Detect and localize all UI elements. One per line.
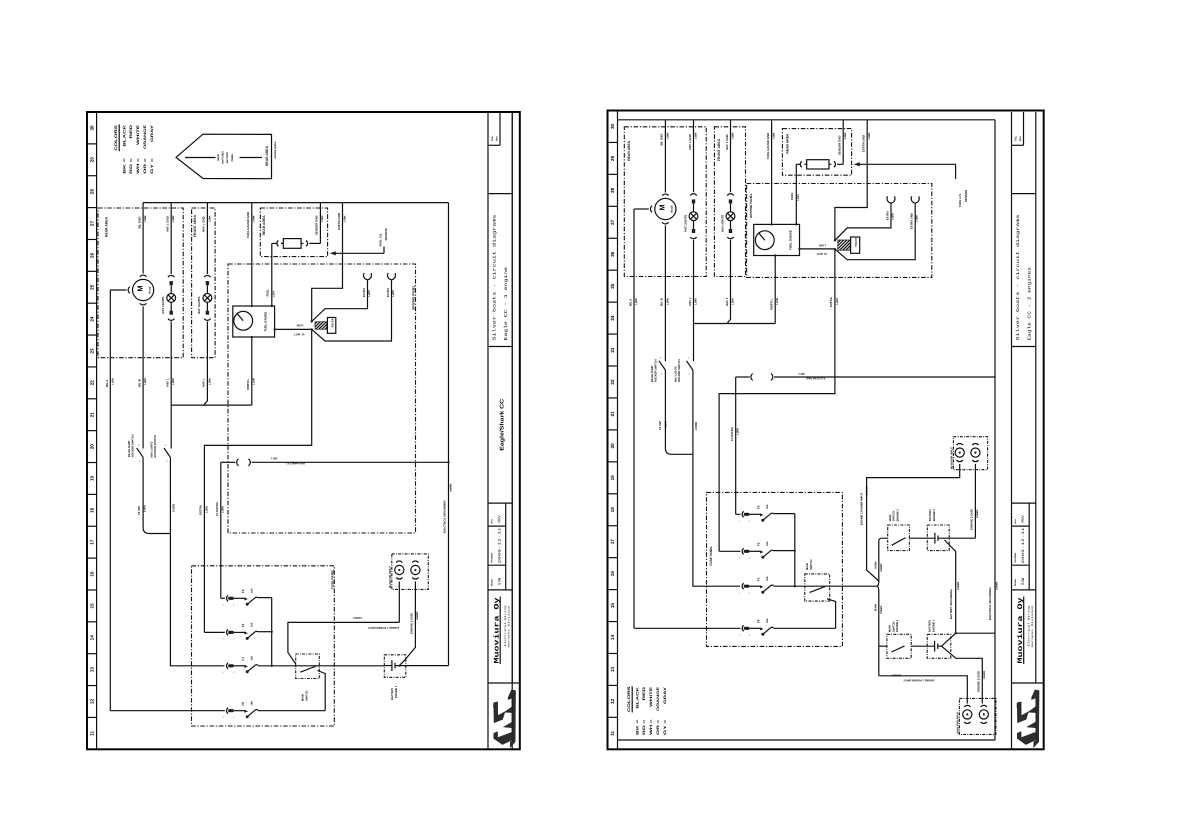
connector engine 1 pin B: [411, 561, 420, 579]
wire FUEL GAUGE GND: [246, 203, 256, 306]
lamp feed junction wire: [171, 404, 252, 406]
wire ANT L p2: [688, 240, 698, 361]
svg-text:OR =: OR =: [656, 720, 660, 736]
svg-text:BLACK: BLACK: [122, 124, 126, 146]
svg-text:ANT L: ANT L: [166, 378, 170, 387]
svg-text:Drawn.: Drawn.: [491, 578, 494, 586]
svg-text:ENGINE 2 POWER INPUT: ENGINE 2 POWER INPUT: [861, 492, 864, 525]
svg-text:REAR AREA: REAR AREA: [105, 216, 109, 237]
svg-text:10MM2: 10MM2: [957, 581, 960, 590]
svg-text:NAV LIGHTS: NAV LIGHTS: [197, 297, 201, 314]
svg-text:SENSOR GND: SENSOR GND: [838, 136, 842, 155]
svg-text:1.5GY: 1.5GY: [797, 194, 800, 201]
svg-text:BATTERY: BATTERY: [391, 688, 394, 700]
svg-text:1.5RD: 1.5RD: [172, 378, 175, 385]
wire F3 F2 output bus: [258, 598, 273, 667]
wire F5 input: [110, 710, 225, 712]
svg-text:6.0RD: 6.0RD: [144, 505, 147, 512]
rocker switch nav lights p2: [674, 357, 693, 382]
wire ENGINE 2 GND: [969, 464, 979, 538]
fuse F2 10A: [742, 548, 774, 558]
svg-text:10A: 10A: [766, 618, 769, 623]
svg-text:MAIN: MAIN: [889, 514, 892, 521]
svg-text:19: 19: [90, 475, 95, 481]
svg-text:17: 17: [610, 539, 615, 545]
svg-text:2.5RD: 2.5RD: [694, 422, 698, 430]
svg-text:WH =: WH =: [136, 158, 140, 174]
svg-text:22: 22: [610, 379, 615, 385]
svg-text:1.5BK: 1.5BK: [694, 132, 697, 139]
svg-text:ROCKER SWITCH: ROCKER SWITCH: [655, 359, 658, 382]
svg-text:17: 17: [90, 539, 95, 545]
wire EXTRA GND p2: [835, 120, 871, 241]
svg-text:ORANGE: ORANGE: [656, 686, 660, 711]
area box FUSE PANEL: [192, 566, 335, 726]
lamp NAV LIGHTS: [726, 194, 735, 239]
fuel sender resistor: [277, 239, 308, 249]
svg-text:1.5OR: 1.5OR: [253, 378, 256, 385]
svg-text:FUSE PANEL: FUSE PANEL: [330, 569, 334, 589]
wire engine 1 power p2: [879, 673, 968, 703]
svg-text:GRAY: GRAY: [663, 686, 667, 704]
svg-text:13: 13: [610, 666, 615, 672]
title block texts: [491, 136, 511, 664]
battery box BATTERY ENGINE 1: [911, 619, 951, 658]
svg-text:EXTRA: EXTRA: [387, 288, 390, 297]
svg-text:WHITE: WHITE: [136, 124, 140, 145]
pin labels F2: [739, 557, 751, 560]
wire FUEL: [265, 243, 276, 306]
svg-text:ELECTRICS GROUNDING: ELECTRICS GROUNDING: [443, 500, 446, 533]
label F2 10A: [756, 541, 769, 546]
wire ENGINE 1 GND p2: [942, 646, 987, 703]
svg-text:SENSOR: SENSOR: [384, 227, 388, 240]
svg-text:NAV L GND: NAV L GND: [202, 216, 206, 232]
svg-text:GY =: GY =: [150, 158, 154, 174]
svg-text:BIL A: BIL A: [105, 379, 109, 387]
svg-text:Tila.: Tila.: [1015, 136, 1018, 141]
svg-text:BILGE: BILGE: [671, 205, 674, 213]
svg-text:12: 12: [90, 699, 95, 705]
wire NAV L GND: [202, 203, 212, 274]
sheet 1 border frame: [87, 112, 520, 749]
svg-text:BIL GND: BIL GND: [660, 134, 664, 146]
svg-text:WHITE: WHITE: [649, 686, 653, 707]
svg-text:20: 20: [610, 443, 615, 449]
svg-text:MAIN: MAIN: [875, 562, 878, 569]
svg-text:25: 25: [90, 284, 95, 290]
svg-text:1.5BK: 1.5BK: [666, 132, 669, 139]
svg-text:11: 11: [90, 730, 95, 735]
svg-text:F1: F1: [756, 577, 760, 581]
wire main feed fork: [875, 538, 888, 676]
svg-text:DRIVING PANEL: DRIVING PANEL: [412, 285, 416, 310]
svg-text:1.5BK: 1.5BK: [343, 215, 346, 222]
svg-text:SJW: SJW: [1021, 577, 1026, 585]
svg-text:15: 15: [90, 603, 95, 609]
svg-text:1.0RD: 1.0RD: [368, 290, 371, 297]
svg-text:ROCKER SWITCH: ROCKER SWITCH: [132, 434, 135, 457]
svg-text:MAIN PWR INPUT: MAIN PWR INPUT: [389, 566, 392, 588]
label ANT LIGHTS: [683, 215, 687, 232]
wire switch outputs merge: [137, 457, 175, 533]
wire ANT L GND: [166, 203, 176, 274]
svg-text:ANT L GND: ANT L GND: [166, 216, 170, 232]
svg-text:ANT LIGHTS: ANT LIGHTS: [683, 215, 687, 232]
svg-text:20: 20: [90, 444, 95, 450]
wire EXTRA to F2 p2: [719, 249, 839, 551]
wire EXTRA GND: [312, 203, 347, 322]
wire BIL A: [105, 290, 127, 711]
svg-text:F1 INP: F1 INP: [137, 506, 141, 515]
svg-text:EXTRA: EXTRA: [363, 288, 366, 297]
svg-text:25: 25: [610, 283, 615, 289]
svg-text:F3: F3: [756, 505, 760, 509]
svg-text:Electrical Wiring: Electrical Wiring: [504, 605, 507, 647]
svg-text:FRONT AREA: FRONT AREA: [193, 214, 197, 237]
wire BIL GND: [137, 203, 147, 274]
sheet 2 border frame: [608, 111, 1044, 750]
svg-text:BATTERY GROUNDING: BATTERY GROUNDING: [950, 589, 953, 619]
lamp feed junction wire p2: [694, 323, 776, 325]
svg-text:ENGINE 2: ENGINE 2: [933, 508, 936, 521]
connector engine 2 pin A: [955, 444, 964, 462]
svg-text:MAIN PWR INPUT: MAIN PWR INPUT: [957, 711, 960, 733]
title block grid: [1012, 112, 1044, 749]
wire merged feed to F1: [170, 534, 224, 666]
svg-text:REAR AREA: REAR AREA: [265, 145, 269, 166]
svg-text:12: 12: [610, 698, 615, 704]
svg-text:1.5RD: 1.5RD: [666, 298, 669, 305]
wire ANT L: [166, 322, 176, 449]
svg-text:SWITCHES: SWITCHES: [222, 151, 225, 164]
svg-text:WH =: WH =: [649, 720, 653, 736]
svg-text:300 1: 300 1: [798, 372, 805, 375]
label NAV LIGHTS: [197, 297, 201, 314]
wire battery1 to grounding dot: [942, 633, 956, 646]
svg-text:1.5RD: 1.5RD: [208, 378, 211, 385]
svg-text:10A: 10A: [766, 504, 769, 509]
svg-text:BIL A: BIL A: [628, 298, 632, 306]
connector box ENGINE 1 power p2: [957, 698, 996, 734]
svg-text:18: 18: [610, 507, 615, 513]
area box FUSE PANEL p2: [707, 492, 843, 646]
wire ANT L GND p2: [688, 120, 698, 193]
svg-text:10A: 10A: [251, 588, 254, 593]
svg-text:1.5BK: 1.5BK: [773, 132, 776, 139]
svg-text:MAIN: MAIN: [301, 694, 304, 701]
svg-text:19: 19: [610, 475, 615, 481]
svg-text:SWITCH: SWITCH: [305, 690, 308, 701]
title block texts: [1014, 136, 1034, 664]
svg-text:BLACK: BLACK: [635, 686, 639, 708]
svg-text:MVV: MVV: [498, 515, 503, 523]
svg-text:1.5RD: 1.5RD: [205, 506, 208, 513]
svg-text:NAV L: NAV L: [202, 378, 206, 387]
area box FRONT AREA p2: [714, 127, 745, 277]
title block grid: [488, 112, 520, 749]
svg-text:ENGINE 1 POWER INPUT: ENGINE 1 POWER INPUT: [367, 626, 399, 629]
svg-text:1.5GY: 1.5GY: [273, 290, 276, 297]
svg-text:2009-12-11: 2009-12-11: [498, 528, 503, 564]
callout leader FUEL LVL SENSOR: [330, 227, 388, 255]
svg-text:28: 28: [90, 189, 95, 195]
svg-text:1.0RD: 1.0RD: [892, 213, 895, 220]
svg-text:SWITCH: SWITCH: [893, 511, 896, 522]
wire INSTR L: [246, 337, 256, 405]
pin labels F5: [739, 634, 751, 637]
svg-text:INSTR L: INSTR L: [770, 299, 774, 310]
svg-text:23: 23: [90, 348, 95, 354]
wire main switch to F5 riser: [318, 671, 326, 711]
connector box ENGINE 1 power: [389, 554, 428, 590]
svg-text:Rev.: Rev.: [491, 518, 494, 523]
svg-text:1.5OR: 1.5OR: [776, 298, 779, 305]
wire splice to fork extra p2: [835, 196, 895, 240]
svg-text:Pen/Date: Pen/Date: [491, 552, 494, 563]
svg-text:FUSE PANEL: FUSE PANEL: [709, 546, 713, 566]
wire NAV L GND p2: [725, 120, 735, 193]
svg-text:GND WIRES FJ: GND WIRES FJ: [286, 462, 305, 465]
wire main switch to F5 riser p2: [827, 599, 836, 629]
svg-text:10MM2: 10MM2: [983, 670, 986, 679]
svg-text:FJ EXTRA GND: FJ EXTRA GND: [806, 377, 825, 380]
svg-text:Rev.: Rev.: [1014, 518, 1017, 523]
pin labels F1: [223, 671, 235, 674]
label F5 10A: [756, 618, 769, 623]
svg-text:SENSOR: SENSOR: [964, 189, 968, 202]
wire splice to fork extra 2: [312, 273, 396, 341]
svg-text:BK =: BK =: [122, 158, 126, 174]
svg-text:1.5BK: 1.5BK: [868, 132, 871, 139]
svg-text:F1 INP: F1 INP: [658, 421, 662, 430]
svg-text:PANEL: PANEL: [231, 153, 234, 162]
svg-text:10A: 10A: [766, 576, 769, 581]
svg-text:70MM2: 70MM2: [880, 605, 883, 614]
svg-text:ENGINE 1 POWER INPUT: ENGINE 1 POWER INPUT: [903, 679, 935, 682]
wire SENSOR GND p2: [837, 120, 847, 165]
svg-text:RD =: RD =: [129, 158, 133, 174]
lamp ANT LIGHTS: [689, 194, 698, 239]
svg-text:29: 29: [610, 155, 615, 161]
node gauge instr pin: [251, 336, 253, 338]
svg-text:Silver boats - circuit diagram: Silver boats - circuit diagrams: [1015, 214, 1021, 341]
wire merged feed to F1 p2: [693, 454, 740, 586]
ruler strip: [608, 111, 618, 750]
svg-text:10MM2: 10MM2: [976, 509, 979, 518]
connector engine 1 pin A: [395, 561, 404, 579]
svg-text:EXTRA: EXTRA: [854, 238, 857, 247]
meter FUEL GAUGE: [233, 306, 275, 337]
ground bus connection p2: [0, 0, 1, 1]
wire F1 output to main switch: [258, 665, 384, 667]
wire engine1 power down: [398, 582, 400, 623]
svg-text:10MM2: 10MM2: [416, 611, 419, 620]
rocker switch bilge pump: [128, 434, 143, 462]
svg-text:ORANGE: ORANGE: [143, 124, 147, 149]
svg-text:MAIN: MAIN: [875, 604, 878, 611]
svg-text:BATTERY: BATTERY: [929, 620, 932, 632]
wire F3 F2 output bus p2: [774, 514, 796, 588]
svg-text:1.5BK: 1.5BK: [172, 215, 175, 222]
svg-text:FUEL LVL: FUEL LVL: [958, 193, 962, 207]
svg-text:FUEL: FUEL: [790, 192, 794, 200]
node grounding rail junction: [447, 461, 449, 463]
pin labels F5: [223, 716, 235, 719]
fuse F3 10A: [227, 595, 259, 605]
svg-text:21: 21: [610, 411, 615, 417]
fuse F1 10A: [742, 583, 774, 593]
svg-text:M: M: [135, 286, 144, 292]
Muoviura logo: [1017, 690, 1039, 748]
svg-text:FUEL GAUGE GND: FUEL GAUGE GND: [766, 133, 770, 159]
svg-text:21: 21: [90, 412, 95, 418]
svg-text:COLORS: COLORS: [114, 124, 118, 150]
wire BIL A p2: [628, 209, 649, 628]
fuse F3 10A: [742, 511, 774, 521]
area box FRONT AREA: [192, 208, 216, 358]
svg-text:2X0015: 2X0015: [352, 616, 362, 619]
svg-text:1.0BK: 1.0BK: [916, 215, 919, 222]
svg-text:Silver boats - circuit diagram: Silver boats - circuit diagrams: [491, 214, 497, 341]
svg-text:Eagle/Shark CC: Eagle/Shark CC: [500, 399, 506, 451]
svg-text:MAIN: MAIN: [806, 563, 809, 570]
fuse F1 10A: [227, 663, 259, 673]
node gauge fuel pin: [271, 305, 273, 307]
label F3 10A: [756, 504, 769, 509]
switch box MAIN SWITCH ENGINE 2: [888, 508, 910, 550]
label ANT LIGHTS: [161, 296, 165, 313]
colors legend: [114, 124, 154, 174]
svg-text:ENGINE 2: ENGINE 2: [896, 508, 899, 521]
main switch box: [296, 654, 320, 701]
svg-text:FUEL GAUGE: FUEL GAUGE: [788, 230, 792, 250]
wire switch outputs merge p2: [658, 370, 698, 454]
svg-text:ENGINE 1: ENGINE 1: [395, 685, 398, 698]
svg-text:GRAY: GRAY: [150, 124, 154, 142]
svg-text:EXTRA GND: EXTRA GND: [911, 213, 914, 229]
svg-text:INSTR L: INSTR L: [246, 379, 250, 390]
svg-text:15: 15: [610, 603, 615, 609]
svg-text:14: 14: [90, 635, 95, 641]
ground bus wire: [143, 202, 448, 204]
Muoviura logo: [493, 690, 515, 748]
svg-text:Eagle CC - 2 engines: Eagle CC - 2 engines: [1027, 266, 1033, 340]
svg-text:1.5RD: 1.5RD: [731, 298, 734, 305]
svg-text:30: 30: [610, 123, 615, 129]
svg-text:30: 30: [90, 125, 95, 131]
svg-text:18: 18: [90, 507, 95, 513]
area box REAR AREA p2: [624, 127, 706, 277]
svg-text:MAIN: MAIN: [889, 625, 892, 632]
svg-text:M: M: [658, 205, 667, 211]
svg-text:RED: RED: [129, 124, 133, 138]
wire ELECTRICS GROUNDING p2: [956, 581, 999, 633]
svg-text:EXTRA GND: EXTRA GND: [862, 135, 866, 152]
switch box MAIN SWITCH ENGINE 1: [887, 619, 911, 658]
svg-text:24: 24: [90, 316, 95, 322]
svg-text:MAIN PWR INPUT: MAIN PWR INPUT: [951, 447, 954, 469]
svg-text:ENGINE 1 GND: ENGINE 1 GND: [410, 613, 414, 634]
svg-text:16: 16: [90, 571, 95, 577]
svg-text:70MM2: 70MM2: [880, 563, 883, 572]
wire F1 output to main switch p2: [774, 585, 877, 587]
svg-text:NAV LIGHTS: NAV LIGHTS: [720, 215, 724, 232]
colors legend: [627, 686, 667, 735]
fuse F5 10A: [742, 625, 774, 635]
svg-text:BIL M: BIL M: [660, 298, 664, 306]
svg-text:FRONT AREA: FRONT AREA: [717, 138, 721, 161]
svg-text:1.5BK: 1.5BK: [731, 132, 734, 139]
label electrics grounding: [443, 483, 452, 533]
svg-text:EXTRA: EXTRA: [829, 296, 833, 307]
svg-text:ROCKER SWITCH: ROCKER SWITCH: [678, 359, 681, 382]
wire FJ EXTRA to F3: [215, 462, 225, 598]
svg-text:26: 26: [610, 251, 615, 257]
svg-text:BILGE PUMP: BILGE PUMP: [651, 365, 654, 382]
wire INSTR L p2: [770, 256, 780, 324]
rocker switch nav lights: [150, 435, 170, 463]
svg-text:EL WITT: EL WITT: [294, 333, 305, 336]
pin labels F3: [739, 520, 751, 523]
svg-text:REAR AREA: REAR AREA: [627, 140, 631, 161]
main switch box p2: [805, 559, 830, 601]
battery box BATTERY ENGINE 2: [909, 508, 975, 550]
motor M bilge pump: [128, 275, 154, 305]
label F2 10A: [241, 622, 254, 627]
svg-text:ENGINE WIRES: ENGINE WIRES: [274, 141, 277, 158]
svg-text:BK =: BK =: [635, 720, 639, 736]
svg-text:ROCKER SWITCH: ROCKER SWITCH: [154, 435, 157, 458]
svg-text:BILGE PUMP: BILGE PUMP: [128, 440, 131, 457]
svg-text:SJW: SJW: [498, 577, 503, 585]
svg-text:1.50R: 1.50R: [819, 243, 826, 246]
svg-text:MAIN: MAIN: [217, 154, 220, 160]
splice EXTRA connector p2: [834, 237, 860, 253]
svg-text:ENGINE 1: ENGINE 1: [933, 619, 936, 632]
svg-text:ANT L GND: ANT L GND: [688, 134, 692, 150]
svg-text:11: 11: [610, 730, 615, 735]
svg-text:REAR AREA: REAR AREA: [786, 133, 790, 154]
wire SENSOR GND: [309, 203, 324, 244]
rocker switch bilge pump p2: [651, 357, 666, 382]
svg-text:2.5RD: 2.5RD: [171, 504, 175, 512]
svg-text:EL WITT: EL WITT: [816, 252, 827, 255]
connector box ENGINE 2 power: [951, 437, 988, 470]
svg-text:FUEL GAUGE: FUEL GAUGE: [263, 312, 267, 332]
area box REAR AREA fuel sender: [260, 208, 327, 257]
wire BATTERY GROUNDING: [945, 540, 960, 633]
svg-text:26: 26: [90, 252, 95, 258]
battery box BATTERY ENGINE 1: [384, 655, 448, 700]
svg-text:ELECTRICS GROUNDING: ELECTRICS GROUNDING: [989, 587, 992, 620]
svg-text:RD =: RD =: [642, 720, 646, 736]
pin labels F3: [223, 604, 235, 607]
fuse F5 10A: [227, 708, 259, 718]
svg-text:23: 23: [610, 347, 615, 353]
svg-text:16MM2: 16MM2: [449, 483, 452, 492]
svg-text:MVV: MVV: [1021, 515, 1026, 523]
svg-text:EXTRA: EXTRA: [199, 504, 203, 515]
pin labels F2: [223, 638, 235, 641]
node gauge pins p2: [770, 223, 800, 256]
svg-text:1.5BK: 1.5BK: [208, 215, 211, 222]
ruler strip: [87, 112, 97, 749]
svg-text:COLORS: COLORS: [627, 686, 631, 712]
svg-text:2009-12-11: 2009-12-11: [1021, 528, 1026, 564]
area box REAR AREA: [98, 208, 183, 358]
svg-text:Harness Division: Harness Division: [507, 605, 510, 648]
